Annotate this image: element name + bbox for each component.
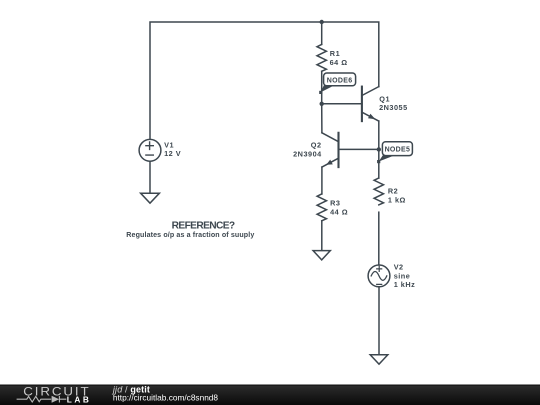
- svg-text:http://circuitlab.com/c8snnd8: http://circuitlab.com/c8snnd8: [113, 392, 219, 402]
- svg-text:NODE5: NODE5: [385, 147, 411, 154]
- svg-text:REFERENCE?: REFERENCE?: [172, 220, 236, 231]
- svg-text:2N3904: 2N3904: [293, 149, 322, 158]
- svg-text:1 kΩ: 1 kΩ: [388, 195, 406, 204]
- svg-text:12 V: 12 V: [164, 149, 181, 158]
- svg-text:LAB: LAB: [67, 395, 92, 405]
- svg-text:44 Ω: 44 Ω: [330, 207, 348, 216]
- svg-text:R1: R1: [330, 49, 340, 58]
- svg-text:R2: R2: [388, 187, 398, 196]
- svg-text:R3: R3: [330, 199, 340, 208]
- svg-text:V2: V2: [394, 263, 404, 272]
- svg-text:sine: sine: [394, 271, 411, 280]
- svg-text:64 Ω: 64 Ω: [330, 58, 348, 67]
- svg-text:1 kHz: 1 kHz: [394, 280, 416, 289]
- svg-text:Regulates o/p as a fraction of: Regulates o/p as a fraction of suuply: [126, 231, 254, 239]
- svg-text:NODE6: NODE6: [327, 77, 353, 84]
- svg-text:2N3055: 2N3055: [379, 103, 408, 112]
